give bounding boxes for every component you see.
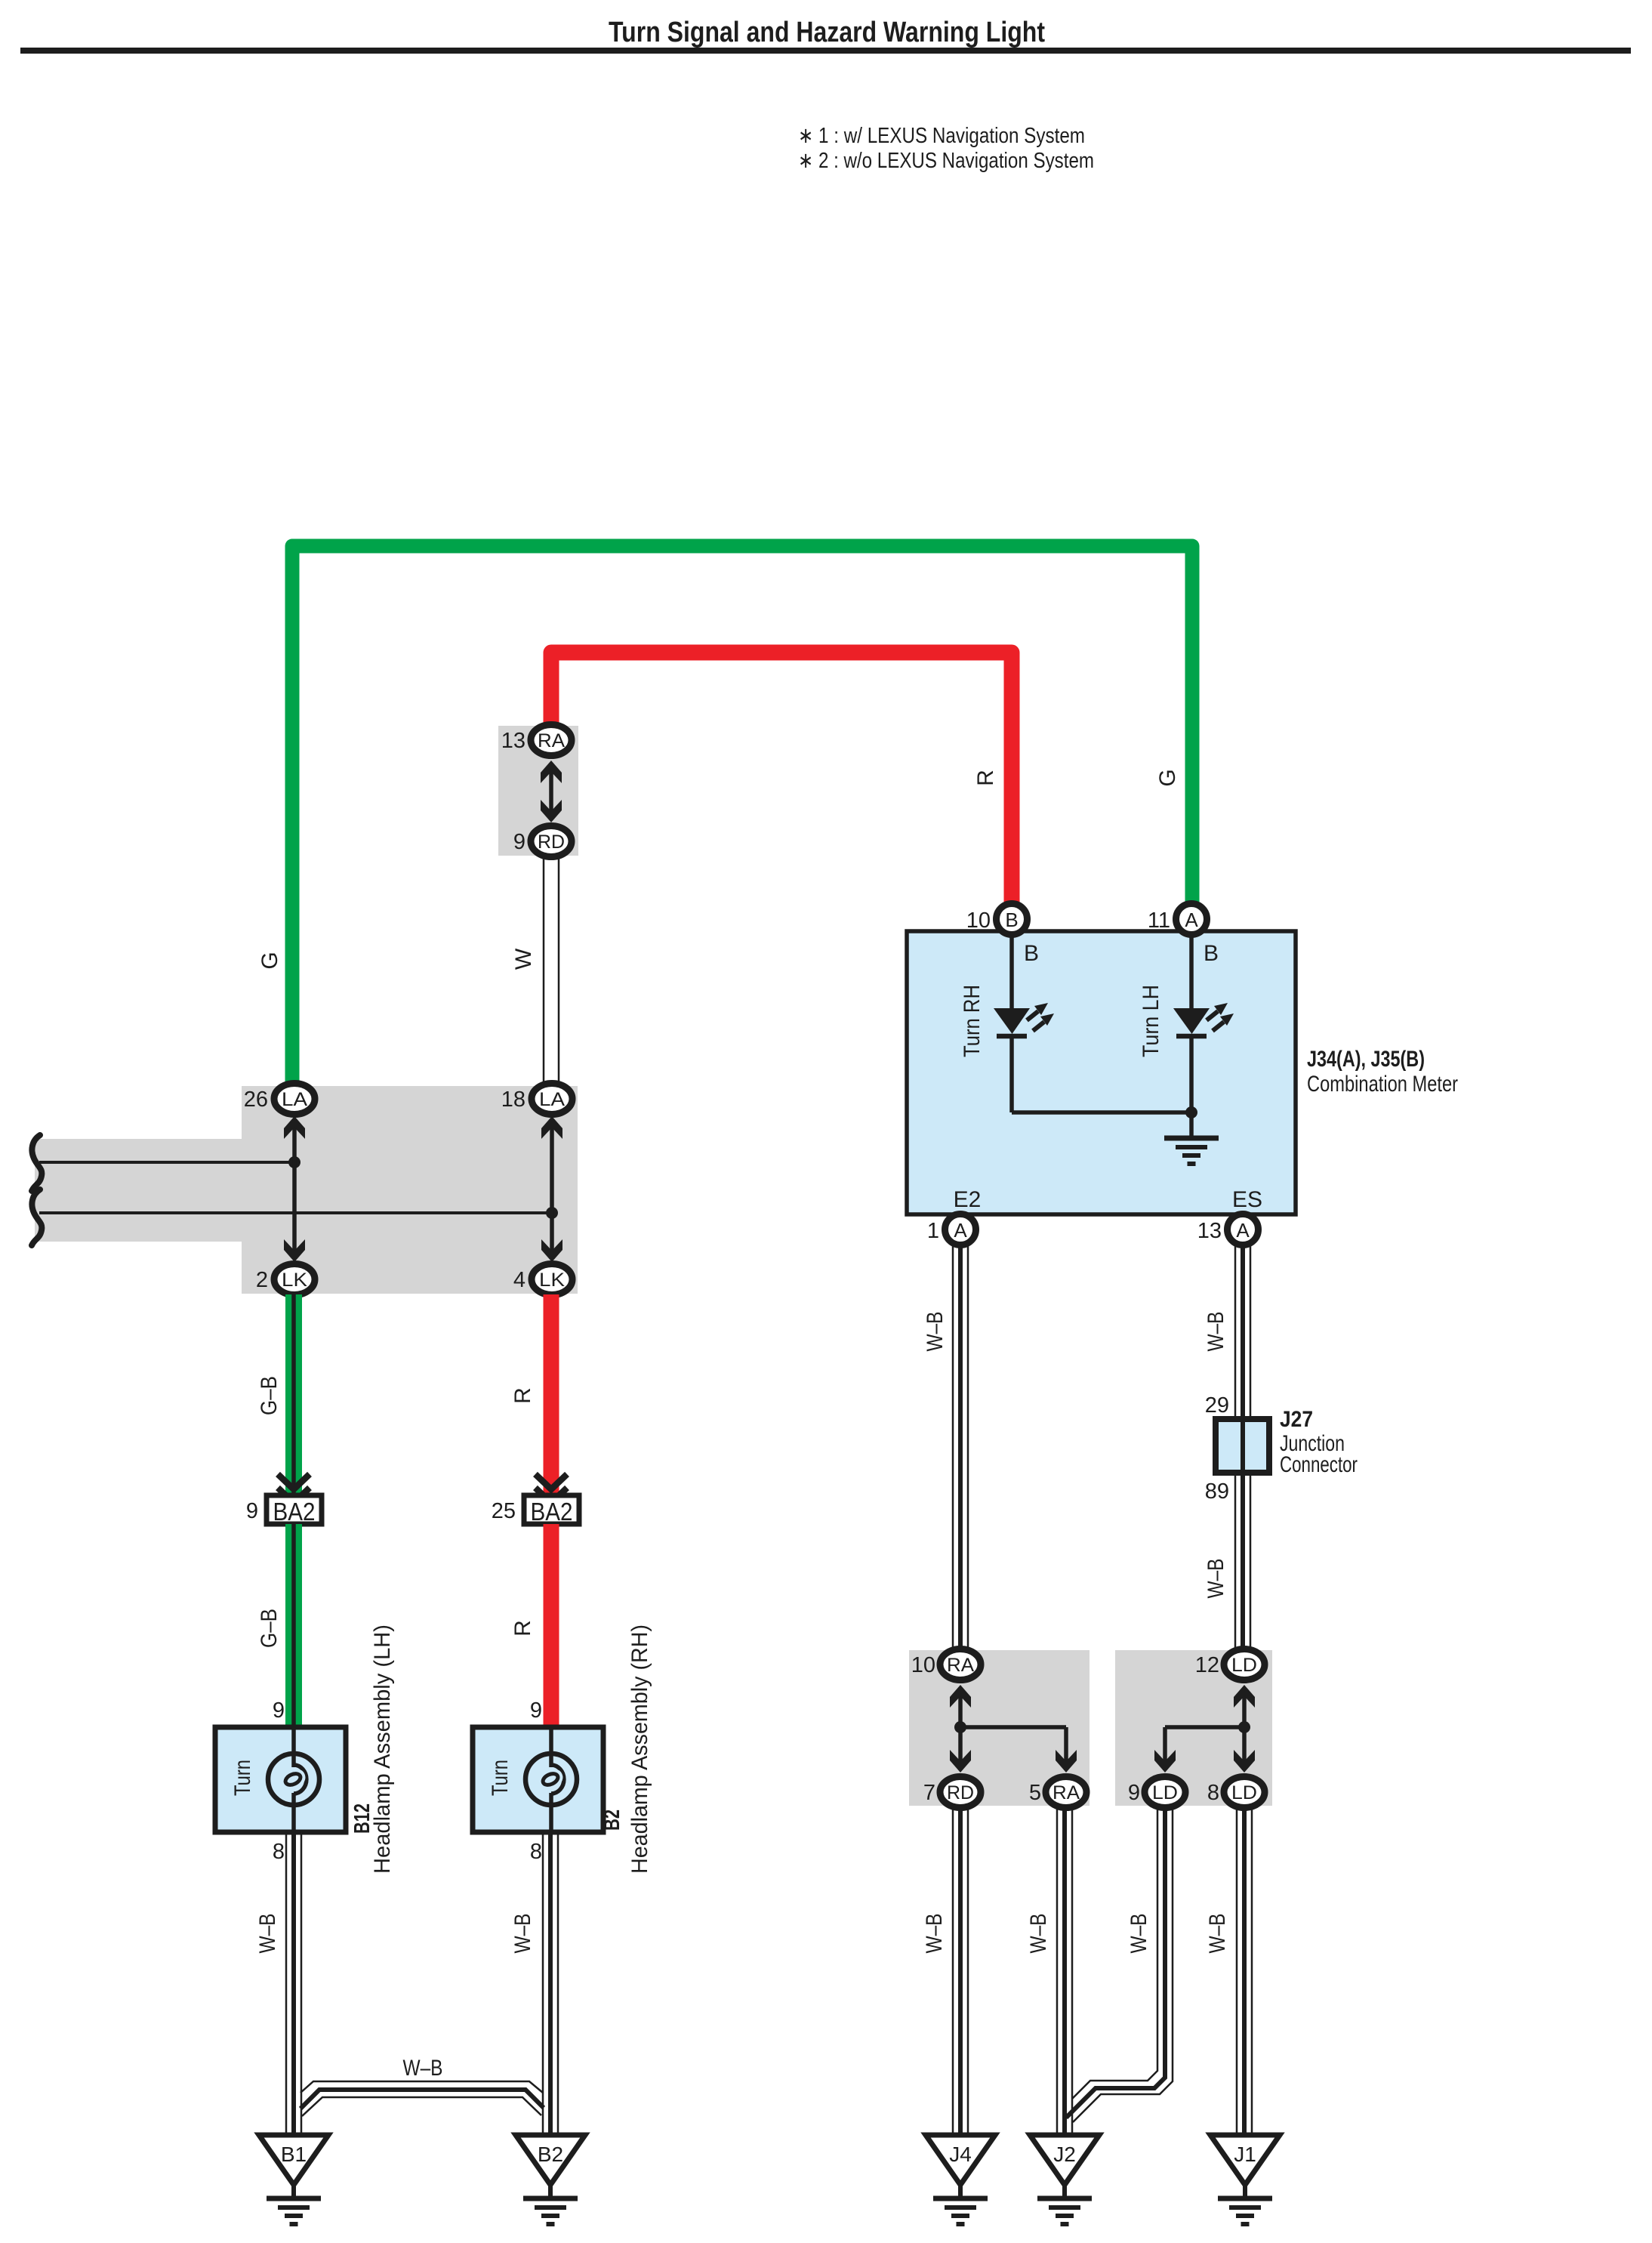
svg-text:J1: J1 — [1234, 2143, 1256, 2166]
connector pin 2 LK — [256, 1264, 315, 1295]
wire W-B (meter pin 13 through J27 to LD12) — [1235, 1245, 1250, 1651]
svg-text:G–B: G–B — [257, 1609, 282, 1648]
svg-text:W–B: W–B — [922, 1914, 947, 1954]
pin 11 A — [1148, 904, 1207, 935]
connector block RA/RD (gray) — [498, 726, 578, 856]
connector pin 7 RD — [923, 1777, 981, 1808]
ground (meter internal) — [1164, 1112, 1219, 1164]
svg-text:J4: J4 — [949, 2143, 972, 2166]
svg-text:∗ 2 : w/o LEXUS Navigation Sys: ∗ 2 : w/o LEXUS Navigation System — [798, 149, 1094, 173]
connector arrows LA18 to LK4 — [541, 1116, 562, 1262]
headlamp assembly LH box B12 with turn bulb — [215, 1727, 346, 1832]
svg-text:26: 26 — [244, 1088, 268, 1112]
svg-text:R: R — [510, 1387, 535, 1404]
svg-text:Turn: Turn — [488, 1760, 513, 1796]
svg-text:W–B: W–B — [1204, 1559, 1228, 1599]
connector arrows LA26 to LK2 — [284, 1116, 305, 1262]
svg-text:RD: RD — [947, 1782, 974, 1803]
wire W-B (meter pin 1 to RA10) — [953, 1245, 968, 1651]
wire R (LK4 down to BA2) — [544, 1294, 559, 1496]
svg-text:13: 13 — [1197, 1219, 1222, 1243]
wire W-B (headlamp RH pin 8 to ground B2) — [543, 1832, 558, 2135]
connector pin 5 RA — [1029, 1777, 1086, 1808]
svg-text:10: 10 — [966, 909, 991, 933]
svg-text:RD: RD — [538, 831, 565, 853]
svg-text:R: R — [973, 770, 998, 786]
connector arrows RA to RD — [541, 761, 562, 822]
svg-text:G–B: G–B — [257, 1376, 282, 1415]
svg-text:8: 8 — [530, 1840, 542, 1864]
svg-text:9: 9 — [530, 1698, 542, 1723]
ground B1 — [259, 2135, 328, 2224]
connector pin 9 LD — [1128, 1777, 1185, 1808]
svg-text:∗ 1 : w/ LEXUS Navigation Syst: ∗ 1 : w/ LEXUS Navigation System — [798, 124, 1085, 148]
connector arrow into BA2 (RH) — [535, 1474, 567, 1503]
svg-text:LD: LD — [1231, 1655, 1257, 1676]
junction dot (RA block) — [954, 1721, 966, 1733]
wire W-B (RD7 to ground J4) — [953, 1807, 968, 2135]
svg-text:18: 18 — [501, 1088, 525, 1112]
svg-text:W–B: W–B — [1204, 1312, 1228, 1352]
svg-text:W–B: W–B — [923, 1312, 948, 1352]
svg-text:89: 89 — [1205, 1479, 1229, 1504]
svg-text:Turn Signal and Hazard Warning: Turn Signal and Hazard Warning Light — [609, 17, 1045, 48]
svg-text:13: 13 — [501, 729, 525, 753]
wire B (pin 11 to LED Turn LH) — [1189, 934, 1194, 1010]
svg-text:LD: LD — [1152, 1782, 1178, 1803]
connector 9 BA2 (LH) — [246, 1495, 322, 1526]
wire R (BA2 down to headlamp RH) — [544, 1524, 559, 1728]
svg-text:Combination Meter: Combination Meter — [1307, 1072, 1458, 1097]
wire G-B (BA2 down to headlamp LH) — [285, 1524, 302, 1728]
wire G-B (LK2 down to BA2) — [285, 1294, 302, 1496]
svg-text:Turn RH: Turn RH — [960, 985, 985, 1057]
connector pin 10 RA — [911, 1649, 981, 1680]
svg-text:9: 9 — [246, 1499, 258, 1523]
label J27 Junction Connector — [1280, 1407, 1358, 1477]
svg-text:W–B: W–B — [510, 1914, 535, 1954]
connector pin 12 LD — [1195, 1649, 1265, 1680]
svg-text:B: B — [1005, 909, 1018, 931]
svg-text:12: 12 — [1195, 1653, 1219, 1677]
wire W-B (LD9 jog to ground J2) — [1066, 1807, 1173, 2122]
svg-text:1: 1 — [927, 1219, 939, 1243]
title rule — [20, 48, 1631, 54]
harness break brace 1 — [32, 1135, 42, 1191]
headlamp assembly RH box B2 with turn bulb — [473, 1727, 603, 1832]
wire W-B (RA5 to ground J2) — [1057, 1807, 1072, 2135]
svg-text:Turn: Turn — [230, 1760, 255, 1796]
svg-text:W: W — [511, 948, 536, 970]
svg-text:A: A — [1236, 1219, 1250, 1242]
connector pin 18 LA — [501, 1084, 572, 1115]
connector 25 BA2 (RH) — [492, 1495, 579, 1526]
svg-text:Turn LH: Turn LH — [1139, 985, 1163, 1057]
svg-text:BA2: BA2 — [273, 1498, 316, 1526]
junction dot 2 — [546, 1207, 558, 1219]
connector pin 13 RA — [501, 725, 572, 756]
svg-text:RA: RA — [1053, 1782, 1080, 1803]
ground J2 — [1030, 2135, 1099, 2224]
svg-text:25: 25 — [492, 1499, 516, 1523]
connector pin 26 LA — [244, 1084, 315, 1115]
svg-text:E2: E2 — [954, 1187, 982, 1212]
ground B2 — [516, 2135, 585, 2224]
svg-text:5: 5 — [1029, 1781, 1041, 1805]
svg-text:A: A — [954, 1219, 967, 1242]
pin 10 B — [966, 904, 1028, 935]
wire W (white, RD down to LA18) — [544, 856, 559, 1085]
svg-text:B: B — [1204, 941, 1219, 966]
svg-text:B: B — [1024, 941, 1039, 966]
wire W-B (headlamp LH pin 8 to ground B1) — [286, 1832, 301, 2135]
svg-text:7: 7 — [923, 1781, 935, 1805]
svg-text:Headlamp Assembly (RH): Headlamp Assembly (RH) — [627, 1624, 652, 1874]
junction dot (meter internal) — [1185, 1106, 1197, 1118]
svg-text:B2: B2 — [538, 2143, 563, 2166]
connector pin 8 LD — [1207, 1777, 1265, 1808]
LED Turn LH — [1173, 1003, 1234, 1036]
connector block LA/LK (gray, with harness tongue) — [35, 1086, 578, 1294]
svg-text:J27: J27 — [1280, 1407, 1313, 1432]
wire harness line 2 — [39, 1211, 552, 1214]
svg-text:R: R — [510, 1620, 535, 1637]
svg-text:9: 9 — [513, 830, 525, 854]
svg-text:9: 9 — [273, 1698, 285, 1723]
svg-text:LA: LA — [539, 1089, 565, 1110]
wire B (pin 10 to LED Turn RH) — [1009, 934, 1014, 1010]
wire W-B (LD8 to ground J1) — [1237, 1807, 1252, 2135]
svg-text:LA: LA — [282, 1089, 307, 1110]
svg-text:G: G — [257, 952, 282, 969]
svg-text:B2: B2 — [600, 1810, 624, 1831]
svg-text:9: 9 — [1128, 1781, 1140, 1805]
svg-text:LD: LD — [1231, 1782, 1257, 1803]
connector block RA/RD/RA (gray, bottom left of right half) — [909, 1650, 1090, 1806]
svg-text:29: 29 — [1205, 1393, 1229, 1418]
svg-text:W–B: W–B — [1205, 1914, 1230, 1954]
svg-text:W–B: W–B — [255, 1914, 280, 1954]
pin 1 A (E2) — [927, 1214, 976, 1245]
connector pin 9 RD — [513, 826, 572, 857]
wire R (red, RA13 up over to combination meter pin 10) — [551, 653, 1012, 906]
wire W-B link between B1 and B2 grounds — [301, 2081, 544, 2116]
wire harness line 1 — [39, 1161, 294, 1164]
svg-text:J2: J2 — [1053, 2143, 1076, 2166]
connector wires RA10 to RD7 and RA5 — [950, 1685, 1077, 1772]
combination meter J34(A) J35(B) box — [907, 931, 1296, 1214]
svg-text:RA: RA — [538, 730, 565, 751]
svg-text:4: 4 — [513, 1268, 525, 1292]
connector arrow into BA2 (LH) — [278, 1474, 310, 1503]
svg-text:A: A — [1185, 909, 1198, 931]
svg-text:G: G — [1155, 769, 1180, 786]
svg-text:8: 8 — [273, 1840, 285, 1864]
ground J1 — [1210, 2135, 1280, 2224]
svg-text:LK: LK — [282, 1270, 307, 1291]
svg-text:J34(A), J35(B): J34(A), J35(B) — [1307, 1047, 1425, 1072]
LED Turn RH — [994, 1003, 1054, 1036]
wire G (green, LA26 up over to combination meter pin 11) — [292, 546, 1192, 1093]
svg-text:ES: ES — [1232, 1187, 1262, 1212]
connector pin 4 LK — [513, 1264, 572, 1295]
svg-text:W–B: W–B — [1127, 1914, 1151, 1954]
junction connector J27 — [1216, 1419, 1269, 1473]
connector block LD (gray, bottom right) — [1115, 1650, 1272, 1806]
svg-text:W–B: W–B — [403, 2056, 443, 2081]
pin 13 A (ES) — [1197, 1214, 1259, 1245]
svg-text:RA: RA — [947, 1655, 974, 1676]
svg-text:LK: LK — [539, 1270, 565, 1291]
harness break brace 2 — [32, 1189, 42, 1245]
svg-text:8: 8 — [1207, 1781, 1219, 1805]
svg-text:10: 10 — [911, 1653, 935, 1677]
label J34(A), J35(B) Combination Meter — [1307, 1047, 1458, 1097]
svg-text:11: 11 — [1148, 909, 1170, 933]
junction dot 1 — [288, 1156, 301, 1168]
svg-text:BA2: BA2 — [531, 1498, 573, 1526]
svg-text:Headlamp Assembly (LH): Headlamp Assembly (LH) — [370, 1624, 395, 1874]
connector wires LD12 to LD9 and LD8 — [1154, 1685, 1255, 1772]
svg-text:2: 2 — [256, 1268, 268, 1292]
ground J4 — [926, 2135, 995, 2224]
wire cathode RH down — [1009, 1038, 1014, 1112]
wire cathode LH down and across — [1012, 1038, 1191, 1112]
svg-text:Connector: Connector — [1280, 1452, 1358, 1477]
svg-text:B1: B1 — [281, 2143, 307, 2166]
junction dot (LD block) — [1238, 1721, 1250, 1733]
svg-text:W–B: W–B — [1026, 1914, 1051, 1954]
